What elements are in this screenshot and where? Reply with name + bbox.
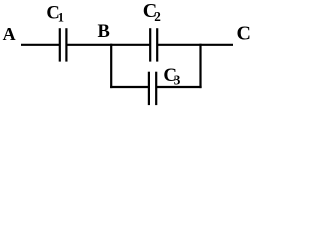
svg-text:1: 1 <box>58 11 64 25</box>
svg-text:A: A <box>3 24 16 44</box>
label C2 <box>143 0 161 24</box>
capacitor C3 <box>149 72 156 105</box>
capacitor C1 <box>60 28 67 61</box>
capacitor C2 <box>150 28 157 61</box>
svg-text:B: B <box>98 22 110 42</box>
wire bottom left to C3 <box>110 86 149 88</box>
label C3 <box>163 65 180 87</box>
label C1 <box>46 3 64 25</box>
svg-text:2: 2 <box>154 9 161 24</box>
wire node B junction down <box>110 44 112 88</box>
wire C2 to C <box>157 44 233 46</box>
svg-text:3: 3 <box>174 73 181 88</box>
wire C1 to C2 <box>66 44 150 46</box>
wire C3 to right vertical <box>156 86 201 88</box>
svg-text:C: C <box>237 22 251 44</box>
wire right vertical up <box>199 44 201 88</box>
wire A to C1 <box>21 44 60 46</box>
